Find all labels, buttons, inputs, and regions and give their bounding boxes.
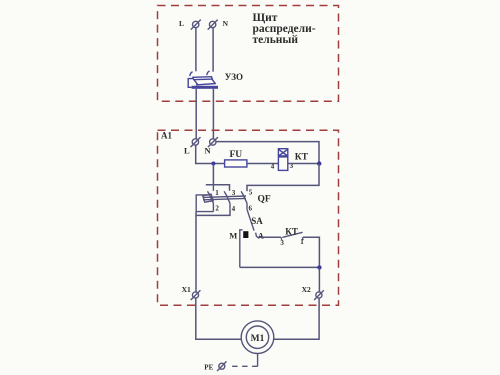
terminal L (board) <box>191 20 201 30</box>
switch SA lever <box>247 210 254 231</box>
left lever diagonal <box>194 80 198 85</box>
contact A tick <box>256 233 257 237</box>
svg-text:4: 4 <box>232 205 236 213</box>
wire KT contact to right rail <box>303 237 319 265</box>
svg-text:N: N <box>223 19 229 28</box>
svg-text:5: 5 <box>249 189 253 197</box>
wire motor to PE (partly dashed) <box>257 354 259 367</box>
wire node A to KT contact <box>257 236 281 238</box>
svg-text:A1: A1 <box>161 131 172 141</box>
svg-text:тельный: тельный <box>253 34 299 46</box>
svg-text:X2: X2 <box>302 285 311 294</box>
svg-text:2: 2 <box>215 205 219 213</box>
wire node M to junction <box>240 266 320 268</box>
svg-text:L: L <box>184 146 190 156</box>
svg-text:4: 4 <box>271 163 275 171</box>
svg-text:1: 1 <box>300 238 304 246</box>
differential element thick bar <box>192 86 218 89</box>
contact M bracket <box>240 230 243 268</box>
enclosure A1 (dashed box) <box>158 130 339 305</box>
svg-text:6: 6 <box>249 205 253 213</box>
svg-text:A: A <box>258 230 265 240</box>
mechanical link (double line) <box>203 196 246 197</box>
motor M1 <box>241 321 274 354</box>
circuit breaker QF <box>196 185 247 212</box>
svg-text:3: 3 <box>280 239 284 247</box>
svg-text:FU: FU <box>230 150 243 160</box>
release box <box>196 195 213 212</box>
wire L terminal down to fuse line <box>196 145 225 163</box>
pole 1 top tick <box>212 185 214 191</box>
dashed PE wire <box>229 365 257 367</box>
RCD УЗО symbol <box>188 71 218 89</box>
distribution board enclosure (dashed box) <box>158 6 339 102</box>
contact M black square <box>243 231 248 238</box>
label: Щит распределительный <box>253 12 316 46</box>
contact tick 3 <box>280 237 283 240</box>
svg-text:КТ: КТ <box>285 226 298 236</box>
svg-text:1: 1 <box>215 189 219 197</box>
fixed contact hook pole 1 <box>190 72 193 76</box>
svg-text:Щит: Щит <box>253 12 278 24</box>
wire pole4 to left rail <box>196 210 230 216</box>
svg-text:QF: QF <box>258 195 271 205</box>
wire fuse to timer coil <box>247 163 279 165</box>
right lever diagonal <box>212 79 216 84</box>
timer coil KT <box>278 149 287 171</box>
svg-text:N: N <box>205 146 212 156</box>
pole 5 lever <box>241 191 247 203</box>
svg-text:X1: X1 <box>182 285 191 294</box>
pole 3 lever <box>224 191 230 203</box>
connector X2 <box>314 290 324 300</box>
svg-text:КТ: КТ <box>295 153 309 163</box>
wire X2 down to motor <box>274 298 319 339</box>
pole 4 bottom tick <box>229 203 231 209</box>
terminal PE <box>217 361 226 371</box>
wire coil to right bus <box>288 163 319 165</box>
svg-text:L: L <box>179 19 184 28</box>
wire N terminal to RCD <box>212 28 214 72</box>
wire X1 down to motor <box>196 298 242 339</box>
node junction at L bus <box>211 162 215 166</box>
timer contact KT lever <box>282 232 302 237</box>
terminal L (A1 input) <box>191 137 201 147</box>
svg-text:PE: PE <box>204 363 213 371</box>
release element (tilted) <box>203 194 214 202</box>
fixed contact hook pole 2 <box>207 71 210 75</box>
fuse FU <box>225 160 247 167</box>
wire L terminal to RCD <box>195 28 197 71</box>
svg-text:распредели-: распредели- <box>253 23 316 35</box>
svg-text:М1: М1 <box>251 334 265 344</box>
wire RCD to A1 terminal L <box>195 89 197 139</box>
pole 3 top tick <box>229 189 231 191</box>
connector X1 <box>191 290 201 300</box>
pole 6 bottom tick <box>246 203 248 209</box>
node junction bottom right <box>317 265 321 269</box>
wire N terminal to right bus <box>216 142 319 162</box>
svg-text:3: 3 <box>232 189 236 197</box>
terminal N (A1 input) <box>208 137 218 147</box>
svg-text:УЗО: УЗО <box>225 72 243 82</box>
pole 5 top tick <box>246 190 248 192</box>
wire L bus down to QF feed bus <box>206 164 230 190</box>
node junction right bus <box>317 161 321 165</box>
terminal N (board) <box>208 20 218 30</box>
pole 2 bottom tick <box>212 203 214 211</box>
wire junction down to X2 <box>318 267 320 291</box>
wire right bus down to QF pole5 feed <box>247 164 319 192</box>
pole 1 lever <box>208 191 214 203</box>
wire RCD to A1 terminal N <box>212 89 214 139</box>
contact tick 1 <box>301 237 304 240</box>
wire left rail down to X1 <box>195 212 197 292</box>
test button box (left) <box>188 79 193 88</box>
lower slanted bar <box>196 84 216 85</box>
svg-text:SA: SA <box>251 216 263 226</box>
svg-text:M: M <box>229 230 237 240</box>
lever bar (slanted) <box>193 77 212 80</box>
